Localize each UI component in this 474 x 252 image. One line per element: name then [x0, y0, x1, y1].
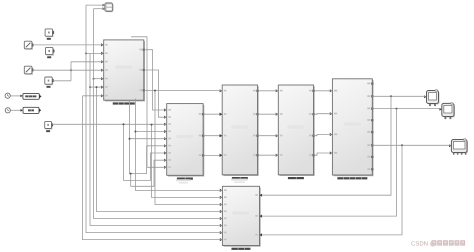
input arrow B1.in5: [101, 77, 104, 80]
wire bracket to B2.in7: [124, 124, 167, 180]
input arrow B6.r1 (right side): [260, 194, 263, 197]
label text (greeked): [177, 178, 193, 180]
wire B2 to B3: [203, 113, 222, 115]
wire feedback to B6.r1: [263, 96, 392, 195]
input arrow B2.in4: [164, 130, 167, 133]
input arrow B2.in9: [164, 166, 167, 169]
junction const4-wire tap: [151, 124, 153, 126]
wire bracket to B2.in8: [131, 160, 167, 186]
input arrow B4.in1: [276, 89, 279, 92]
ramp R2 curve: [26, 68, 31, 73]
junction ramp R2 branch: [70, 69, 72, 71]
wire B2 to B3: [203, 135, 222, 137]
wire tap to B6.in2: [152, 125, 223, 198]
wire col-A2 scope feed down to B6.in7: [86, 5, 222, 233]
input arrow B5.in2: [330, 112, 333, 115]
subsystem B3: [223, 86, 258, 176]
output port B5.out4: [371, 119, 373, 121]
wire B1.out3 to B3.in1: [144, 90, 222, 92]
input arrow B6.in2: [220, 196, 223, 199]
output port B3.out3: [256, 135, 258, 137]
input arrow B2.in7: [164, 151, 167, 154]
constant C2 value: [48, 50, 50, 52]
clock K2: [5, 108, 10, 113]
output port B4.out4: [312, 154, 314, 156]
wire B5.out2 to scope SC1: [372, 95, 426, 97]
input arrow SC1: [424, 95, 426, 98]
wire constant C4 to B2.in3: [52, 123, 166, 125]
ghost smudge under B2 label: [176, 179, 191, 181]
output port B5.out3: [371, 108, 373, 110]
junction bracket in7: [123, 123, 125, 125]
goto tag G1: [23, 93, 39, 99]
input arrow B1.in6: [101, 86, 104, 89]
subsystem B1: [105, 41, 145, 101]
ramp R2: [25, 67, 33, 75]
input arrow B1.in4: [101, 69, 104, 72]
output port B3.out1: [256, 90, 258, 92]
input arrow B3.in2: [220, 113, 223, 116]
wire B5.out3 to scope SC2: [372, 108, 441, 110]
wire feedback to B6.r3: [263, 145, 403, 235]
output port B3.out4: [256, 154, 258, 156]
subsystem B5: [334, 80, 374, 176]
faint CSDN ghost watermark inside block: [344, 123, 361, 126]
wire ramp R1 to B1.in1: [32, 44, 103, 46]
wire B3 to B4: [258, 113, 278, 115]
constant C4 value: [47, 124, 49, 126]
goto tag G2: [23, 107, 39, 113]
wire B4 to B5: [314, 90, 333, 92]
input arrow B6.r2 (right side): [260, 215, 263, 218]
input arrow B5.in3: [330, 133, 333, 136]
port label ticks B2: [168, 109, 171, 111]
input arrow B6.in5: [220, 217, 223, 220]
constant C4: [46, 122, 53, 129]
junction B1.out3 tap: [154, 90, 156, 92]
output port B5.out1: [371, 83, 373, 85]
input arrow B4.in4: [276, 154, 279, 157]
clock K1: [5, 93, 10, 98]
wire clock K1 to tag G1: [11, 95, 22, 97]
faint CSDN ghost watermark inside block: [115, 66, 132, 69]
input arrow B3.in3: [220, 134, 223, 137]
input arrow B6.in4: [220, 210, 223, 213]
input arrow B6.in8: [220, 238, 223, 241]
wire col-A4 to top scope in2: [94, 8, 105, 10]
label text (greeked): [46, 130, 50, 132]
output port B5.out6: [371, 144, 373, 146]
input arrow B6.in6: [220, 224, 223, 227]
junction x135/B2.in4: [134, 131, 136, 133]
label text (greeked): [47, 38, 51, 40]
scope SC0 (2-in display): [106, 4, 114, 13]
subsystem B6: [224, 188, 261, 247]
wire bracket to B2.in6: [130, 139, 167, 174]
wire col-A4 scope feed down to B6.in5: [94, 9, 223, 219]
wire col-A4 branch to B1.in5: [94, 78, 104, 80]
output port B4.out3: [312, 135, 314, 137]
constant C1 value: [48, 32, 50, 34]
input arrow B4.in2: [276, 113, 279, 116]
input arrow B1.in1: [101, 43, 104, 46]
input arrow B1.in2: [101, 52, 104, 55]
faint CSDN ghost watermark inside block: [176, 135, 193, 138]
input arrow B2.in2: [164, 116, 167, 119]
constant C3: [46, 78, 53, 85]
input arrow B6.r3 (right side): [260, 233, 263, 236]
arrow into B3: [220, 154, 223, 157]
output port B5.out2: [371, 95, 373, 97]
input arrow B6.in3: [220, 203, 223, 206]
junction col-A3/B1.in6: [89, 86, 91, 88]
wire col-A1 down to B6.in8: [83, 96, 223, 240]
input arrow B1.in3: [101, 60, 104, 63]
wire B1 aux to B2.in9: [131, 37, 166, 168]
port label ticks B1: [105, 44, 108, 46]
scope SC2: [445, 117, 447, 120]
input arrow B2.in1: [164, 108, 167, 111]
label text (greeked): [232, 177, 248, 179]
wire feedback to B6.r2: [263, 109, 397, 217]
wire col-A2 to B1.in2: [86, 52, 103, 54]
wire B3 to B4: [258, 90, 278, 92]
scope SC1: [429, 104, 431, 107]
input arrow SC2: [439, 108, 441, 111]
input arrow SC0.2: [103, 7, 105, 10]
constant C1: [46, 30, 53, 37]
input arrow B1.in7: [101, 94, 104, 97]
ramp R1 curve: [26, 43, 31, 48]
arrow into B3: [220, 134, 223, 137]
faint CSDN ghost watermark inside block: [232, 212, 249, 215]
output port B1.out2: [143, 69, 145, 71]
output port B4.out2: [312, 113, 314, 115]
input arrow B2.in8: [164, 159, 167, 162]
port label ticks B3: [224, 90, 227, 92]
wire B1.out1 to B2.in1: [144, 50, 167, 110]
junction col-A4/B1.in5: [93, 78, 95, 80]
port label ticks B6: [224, 189, 227, 191]
wire const3 riser and branch to B1.in3: [71, 62, 103, 81]
junction bracket in8: [130, 173, 132, 175]
junction col-A2/B1.in2: [85, 52, 87, 54]
label text (greeked): [113, 102, 135, 104]
wire B4 to B5: [314, 113, 333, 116]
input arrow B2.in6: [164, 144, 167, 147]
input arrow B3.in1: [220, 89, 223, 92]
wire branch to B2.in4: [135, 131, 166, 133]
input arrow B6.in1: [220, 189, 223, 192]
output port B3.out2: [256, 113, 258, 115]
input arrow B5.in4: [330, 151, 333, 154]
wire B5.out6 to scope SC3: [372, 144, 451, 146]
wire col-A5 down to B6.in4: [97, 87, 223, 211]
wire col-A2 to top scope in1: [86, 4, 104, 6]
wire B2 to B3: [203, 154, 222, 156]
input arrow B5.in1: [330, 89, 333, 92]
wire B4 to B5: [314, 153, 333, 155]
label text (greeked): [47, 86, 51, 88]
label text (greeked): [231, 248, 250, 250]
constant C2: [47, 48, 54, 55]
input arrow B6.in7: [220, 231, 223, 234]
arrow into G2: [21, 109, 23, 112]
input arrow B2.in3: [164, 123, 167, 126]
wire B1.out2 to B2.in2: [144, 70, 167, 117]
input arrow SC3: [449, 144, 451, 147]
scope SC3: [453, 153, 455, 155]
input arrow B4.in3: [276, 134, 279, 137]
wire B3 to B4: [258, 135, 278, 137]
faint CSDN ghost watermark inside block: [287, 126, 304, 129]
output port B5.out7: [371, 156, 373, 158]
input arrow SC0.1: [103, 4, 105, 7]
input arrow B2.in5: [164, 137, 167, 140]
output port B5.out8: [371, 168, 373, 170]
junction scope1 feed: [390, 95, 392, 97]
port label ticks B4: [280, 90, 283, 92]
label text (greeked): [47, 56, 51, 58]
output port B2.out1: [202, 113, 204, 115]
arrow into B3: [220, 113, 223, 116]
junction col-A5 top: [96, 86, 98, 88]
label text (greeked): [337, 177, 367, 179]
wire col-A1 corner to B1.in7: [83, 95, 104, 97]
wire tap to B6.in3: [155, 91, 222, 205]
ghost smudge under B3 label: [231, 179, 248, 181]
output port B2.out3: [202, 154, 204, 156]
output port B1.out3: [143, 89, 145, 91]
output port B1.out1: [143, 49, 145, 51]
wire B3 to B4: [258, 154, 278, 156]
arrow into G1: [20, 95, 22, 98]
wire B4 to B5: [314, 135, 333, 136]
junction scope3 feed: [401, 144, 403, 146]
wire col-A3 down to B6.in6: [90, 53, 222, 225]
ramp R1: [25, 42, 33, 50]
junction scope2 feed: [396, 108, 398, 110]
subsystem B2: [168, 105, 204, 177]
wire clock K2 to tag G2: [11, 109, 22, 111]
output port B5.out5: [371, 131, 373, 133]
wire B1 bottom tap down to B6.in1: [135, 99, 222, 191]
faint CSDN ghost watermark inside block: [231, 126, 248, 129]
wire col-A3 branch to B1.in6: [90, 86, 103, 88]
wire constant C3 to riser: [53, 80, 71, 82]
constant C3 value: [48, 80, 50, 82]
output port B2.out2: [202, 135, 204, 137]
input arrow B3.in4: [220, 154, 223, 157]
subsystem B4: [280, 86, 315, 176]
wire ramp R2 to B1.in4: [32, 69, 103, 71]
junction bracket in6: [129, 138, 131, 140]
output port B4.out1: [312, 90, 314, 92]
wire B1 bottom tap to B2.in5: [130, 100, 167, 139]
label text (greeked): [288, 177, 304, 179]
